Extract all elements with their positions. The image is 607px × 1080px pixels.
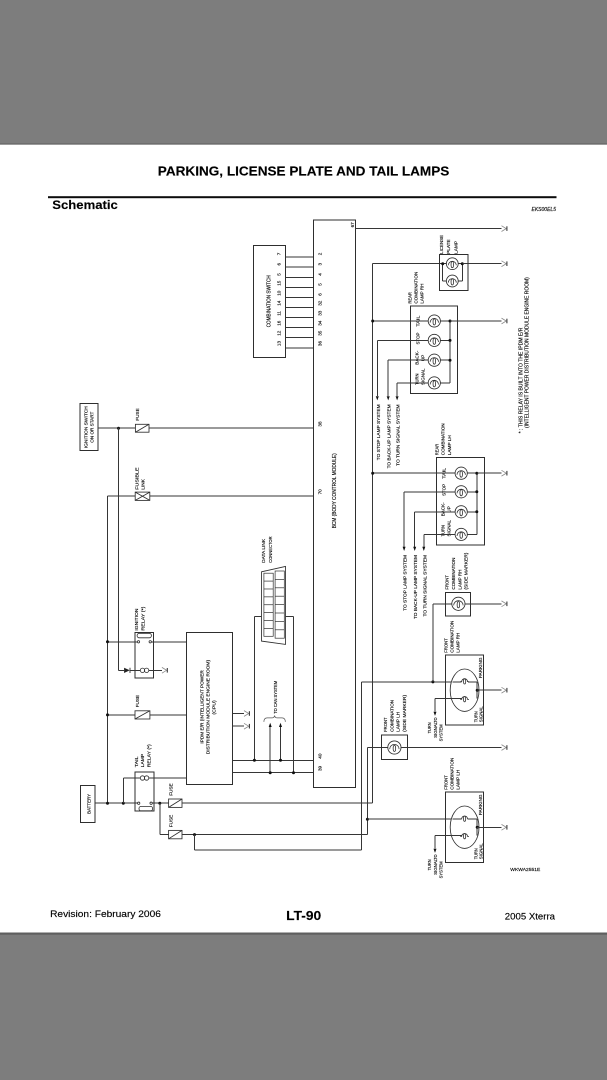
svg-text:RELAY (*): RELAY (*) bbox=[140, 606, 145, 631]
wire rear LH lamp common bus bbox=[467, 473, 477, 534]
wire rear RH stop feed bbox=[377, 340, 428, 396]
wire trunk B to front combination lamp LH bbox=[367, 818, 461, 820]
battery bbox=[81, 785, 96, 822]
wire fusible link to BCM pin 70 bbox=[150, 495, 313, 497]
pin label 12 (combination switch) bbox=[277, 330, 282, 336]
arrow to CAN system (left, from CAN-L) bbox=[269, 723, 272, 773]
pin label 13 (combination switch) bbox=[277, 341, 282, 347]
wire combination switch pin 12 to BCM pin 35 bbox=[286, 337, 314, 339]
wire combination switch pin 14 to BCM pin 32 bbox=[286, 307, 314, 309]
wire DLC bracket left to CAN-H bbox=[254, 617, 261, 761]
svg-text:RELAY (*): RELAY (*) bbox=[146, 744, 151, 768]
node: front LH parking output junction bbox=[476, 826, 479, 829]
lamp rear RH tail bbox=[428, 315, 440, 327]
front combination lamp RH bbox=[444, 621, 484, 725]
tail lamp relay (*) bbox=[134, 744, 154, 811]
svg-text:WKWA2551E: WKWA2551E bbox=[510, 867, 540, 872]
pin label 5 (BCM) bbox=[317, 283, 322, 286]
combination switch bbox=[253, 245, 285, 357]
wire trunk to fuse (IPDM feed) bbox=[108, 714, 136, 716]
node: rear LH bus junction tail bbox=[475, 472, 478, 475]
wire rear RH lamp common bus bbox=[440, 321, 450, 383]
svg-text:DISTRIBUTION MODULE ENGINE ROO: DISTRIBUTION MODULE ENGINE ROOM) bbox=[205, 659, 210, 754]
svg-text:LAMP LH: LAMP LH bbox=[396, 712, 401, 732]
front combination lamp LH bbox=[444, 758, 484, 863]
wire combination switch pin 10 to BCM pin 6 bbox=[286, 297, 314, 299]
arrow to turn signal system (front LH) bbox=[434, 849, 437, 853]
pin label 34 (BCM) bbox=[317, 320, 322, 326]
pin label 6 (combination switch) bbox=[277, 263, 282, 266]
wire front LH parking to ground arrow bbox=[477, 826, 501, 828]
svg-text:FUSE: FUSE bbox=[169, 783, 174, 796]
svg-text:TAIL: TAIL bbox=[134, 756, 139, 768]
node: rear RH bus junction stop bbox=[449, 339, 452, 342]
pin label 7 (combination switch) bbox=[277, 252, 282, 255]
node: DLC to CAN-H junction bbox=[253, 759, 256, 762]
svg-text:5: 5 bbox=[317, 283, 322, 286]
svg-text:4: 4 bbox=[317, 273, 322, 276]
svg-text:TURN: TURN bbox=[427, 722, 432, 733]
wire IPDM to BCM pin 40 (CAN-H) bbox=[233, 759, 314, 761]
svg-text:PARKING: PARKING bbox=[478, 794, 483, 815]
label to turn signal system (front RH) bbox=[427, 717, 443, 741]
arrow to back-up lamp system (upper) bbox=[387, 396, 390, 400]
footer page number LT-90 bbox=[286, 908, 321, 923]
arrow to turn signal system (upper) bbox=[396, 396, 399, 400]
svg-text:LINK: LINK bbox=[141, 478, 146, 490]
svg-text:SIGNAL: SIGNAL bbox=[479, 706, 484, 722]
wire side marker RH to ground arrow bbox=[465, 603, 502, 605]
arrow to stop lamp system (lower) bbox=[403, 547, 406, 551]
svg-text:LAMP RH: LAMP RH bbox=[420, 284, 425, 304]
svg-text:IGNITION SWITCH: IGNITION SWITCH bbox=[83, 406, 88, 448]
svg-text:BACK-: BACK- bbox=[415, 350, 420, 364]
node: trunk B / front combination lamp LH junction bbox=[366, 818, 369, 821]
svg-text:LAMP LH: LAMP LH bbox=[456, 770, 461, 790]
wire tail lamp relay coil to IPDM E/R bbox=[149, 777, 187, 779]
wire trunk B (parking lamp riser LH) bbox=[366, 748, 368, 835]
node: license lamp right junction bbox=[461, 262, 464, 265]
wire trunk A (tail lamp supply riser) bbox=[372, 264, 374, 804]
svg-text:32: 32 bbox=[317, 300, 322, 306]
wire combination switch pin 6 to BCM pin 3 bbox=[286, 266, 314, 268]
svg-text:COMBINATION SWITCH: COMBINATION SWITCH bbox=[266, 275, 272, 327]
pin label 35 (BCM) bbox=[317, 330, 322, 336]
pin label 33 (BCM) bbox=[317, 310, 322, 316]
ground arrow (license plate lamp) bbox=[502, 261, 507, 267]
ground arrow (front combination lamp LH) bbox=[502, 824, 507, 830]
footer model 2005 Xterra bbox=[505, 911, 555, 921]
svg-text:39: 39 bbox=[317, 765, 322, 771]
label to turn signal system (lower) bbox=[422, 555, 427, 617]
lamp rear LH stop bbox=[455, 486, 467, 498]
svg-text:FRONT: FRONT bbox=[383, 717, 388, 732]
license plate lamp bbox=[439, 235, 468, 291]
continuation chevron (CAN stub 1) bbox=[244, 711, 249, 717]
wire fuse 2 branch down to front lamp trunk C bbox=[195, 835, 362, 851]
wire junction up to front side marker RH bbox=[433, 604, 452, 682]
svg-text:IPDM E/R (INTELLIGENT POWER: IPDM E/R (INTELLIGENT POWER bbox=[199, 670, 204, 744]
svg-text:(SIDE MARKER): (SIDE MARKER) bbox=[464, 552, 469, 589]
wire rear RH turn signal feed bbox=[397, 383, 428, 396]
node: front RH parking output junction bbox=[476, 689, 479, 692]
svg-text:16: 16 bbox=[277, 320, 282, 326]
ground arrow (front side marker LH) bbox=[502, 745, 507, 751]
wire trunk B to front side marker LH bbox=[367, 747, 388, 749]
wire IPDM CAN stub 2 bbox=[233, 725, 244, 727]
svg-text:TO CAN SYSTEM: TO CAN SYSTEM bbox=[273, 681, 278, 714]
svg-text:BACK-: BACK- bbox=[441, 502, 446, 516]
lamp rear LH turn signal bbox=[455, 528, 467, 540]
diode (ignition relay coil suppression) bbox=[124, 668, 140, 673]
svg-text:COMBINATION: COMBINATION bbox=[450, 758, 455, 790]
pin label 67 (BCM) bbox=[350, 222, 355, 228]
arrow to CAN system (right, from CAN-H) bbox=[279, 723, 282, 761]
node: license lamp left junction bbox=[441, 262, 444, 265]
wire trunk to ignition relay contact bbox=[108, 641, 138, 643]
pin label 16 (combination switch) bbox=[277, 320, 282, 326]
node: CAN-L arrow junction bbox=[269, 771, 272, 774]
node: trunk A / rear LH tail junction bbox=[371, 472, 374, 475]
arrow to turn signal system (front RH) bbox=[434, 712, 437, 716]
wire license plate lamp to ground arrow bbox=[462, 263, 501, 265]
label to back-up lamp system (lower) bbox=[413, 555, 418, 619]
ground arrow (front combination lamp RH) bbox=[502, 687, 507, 693]
svg-text:(SIDE MARKER): (SIDE MARKER) bbox=[402, 694, 407, 731]
lamp rear LH tail bbox=[455, 467, 467, 479]
label to turn signal system (upper) bbox=[396, 404, 401, 466]
page title bbox=[158, 164, 450, 179]
pin label 36 (BCM) bbox=[317, 341, 322, 347]
wire rear LH turn signal feed bbox=[424, 534, 455, 546]
front combination lamp RH (side marker) bbox=[445, 552, 471, 616]
svg-text:TO BACK-UP LAMP SYSTEM: TO BACK-UP LAMP SYSTEM bbox=[413, 555, 418, 619]
svg-text:REAR: REAR bbox=[408, 292, 413, 304]
ground arrow (rear combination lamp RH) bbox=[502, 318, 507, 324]
wire rear RH lamp to ground arrow bbox=[450, 320, 502, 322]
svg-text:FUSE: FUSE bbox=[169, 815, 174, 828]
wire ignition junction down to ignition relay coil bbox=[119, 428, 125, 670]
wire trunk C to front combination lamp RH bbox=[362, 681, 462, 683]
svg-text:(CPU): (CPU) bbox=[211, 700, 216, 715]
svg-text:COMBINATION: COMBINATION bbox=[450, 621, 455, 653]
ignition relay (*) bbox=[134, 606, 154, 678]
svg-text:FRONT: FRONT bbox=[445, 575, 450, 590]
svg-text:FUSIBLE: FUSIBLE bbox=[134, 467, 139, 489]
svg-text:(INTELLIGENT POWER DISTRIBUTIO: (INTELLIGENT POWER DISTRIBUTION MODULE E… bbox=[524, 277, 530, 428]
fuse (IPDM feed) bbox=[135, 695, 150, 719]
svg-text:LAMP: LAMP bbox=[453, 241, 458, 254]
svg-text:FUSE: FUSE bbox=[135, 408, 140, 421]
fusible link bbox=[134, 467, 149, 500]
arrow to turn signal system (lower) bbox=[422, 547, 425, 551]
ground arrow (rear combination lamp LH) bbox=[502, 470, 507, 476]
svg-text:6: 6 bbox=[317, 293, 322, 296]
svg-text:TURN: TURN bbox=[427, 859, 432, 870]
svg-text:6: 6 bbox=[277, 263, 282, 266]
label to back-up lamp system (upper) bbox=[387, 404, 392, 468]
svg-text:BCM (BODY CONTROL MODULE): BCM (BODY CONTROL MODULE) bbox=[332, 453, 338, 528]
lamp rear RH back-up bbox=[428, 354, 440, 366]
svg-text:15: 15 bbox=[277, 280, 282, 286]
wire trunk A to rear LH tail lamp bbox=[373, 472, 455, 474]
svg-text:FUSE: FUSE bbox=[135, 695, 140, 708]
pin label 10 (combination switch) bbox=[277, 290, 282, 296]
wire side marker LH to ground arrow bbox=[401, 747, 502, 749]
wire fuse to IPDM E/R bbox=[150, 714, 187, 716]
svg-text:11: 11 bbox=[277, 311, 282, 316]
pin label 11 (combination switch) bbox=[277, 311, 282, 316]
svg-text:COMBINATION: COMBINATION bbox=[390, 700, 395, 732]
fuse (parking lamp circuit) bbox=[169, 815, 182, 839]
wire IPDM CAN stub 1 bbox=[233, 713, 244, 715]
svg-text:38: 38 bbox=[317, 421, 322, 427]
pin label 5 (combination switch) bbox=[277, 273, 282, 276]
pin label 38 (BCM) bbox=[317, 421, 322, 427]
wire front RH parking to ground arrow bbox=[477, 689, 501, 691]
svg-text:5: 5 bbox=[277, 273, 282, 276]
svg-text:33: 33 bbox=[317, 310, 322, 316]
wire trunk A to license plate lamp bbox=[373, 263, 443, 265]
node: trunk / ignition relay junction bbox=[106, 640, 109, 643]
wire fuse 2 to front lamp trunk B bbox=[182, 834, 367, 836]
node: rear LH bus junction stop bbox=[475, 490, 478, 493]
svg-text:34: 34 bbox=[317, 320, 322, 326]
arrow to back-up lamp system (lower) bbox=[413, 547, 416, 551]
svg-text:40: 40 bbox=[317, 753, 322, 759]
pin label 40 (BCM) bbox=[317, 753, 322, 759]
wire fuse to BCM pin 38 bbox=[149, 427, 313, 429]
svg-text:LAMP RH: LAMP RH bbox=[456, 633, 461, 653]
label TO CAN SYSTEM bbox=[273, 681, 278, 714]
wire combination switch pin 15 to BCM pin 5 bbox=[286, 287, 314, 289]
wire ignition relay contact to IPDM E/R bbox=[151, 641, 186, 643]
arrow to stop lamp system (upper) bbox=[376, 396, 379, 400]
wire trunk C (parking lamp riser RH) bbox=[361, 682, 363, 850]
ignition switch bbox=[80, 404, 98, 451]
wire combination switch pin 7 to BCM pin 2 bbox=[286, 256, 314, 258]
svg-text:14: 14 bbox=[277, 300, 282, 306]
node: relay output junction bbox=[158, 802, 161, 805]
svg-text:COMBINATION: COMBINATION bbox=[414, 272, 419, 304]
svg-text:35: 35 bbox=[317, 330, 322, 336]
wire battery to tail lamp relay bbox=[95, 802, 137, 804]
svg-text:SIGNAL: SIGNAL bbox=[433, 859, 438, 875]
ground arrow (front side marker RH) bbox=[502, 601, 507, 607]
fuse (tail lamp circuit) bbox=[169, 783, 182, 807]
svg-text:TO STOP LAMP SYSTEM: TO STOP LAMP SYSTEM bbox=[403, 555, 408, 611]
wire BCM pin 67 to ground arrow bbox=[355, 228, 501, 230]
node: battery / relay coil junction bbox=[122, 802, 125, 805]
svg-text:LAMP RH: LAMP RH bbox=[458, 570, 463, 590]
ground chevron (ignition relay coil) bbox=[162, 667, 167, 673]
svg-text:COMBINATION: COMBINATION bbox=[441, 423, 446, 455]
svg-text:BATTERY: BATTERY bbox=[87, 793, 93, 814]
lamp rear RH turn signal bbox=[428, 377, 440, 389]
wire rear LH back-up feed bbox=[415, 512, 455, 547]
svg-text:CONNECTOR: CONNECTOR bbox=[268, 536, 273, 563]
node: trunk / IPDM fuse junction bbox=[106, 713, 109, 716]
svg-text:Schematic: Schematic bbox=[52, 198, 118, 212]
wire relay output down to fuse 2 bbox=[160, 803, 169, 834]
pin label 4 (BCM) bbox=[317, 273, 322, 276]
note: relay built into IPDM E/R bbox=[518, 277, 530, 434]
node: trunk A / rear RH tail junction bbox=[371, 320, 374, 323]
pin label 3 (BCM) bbox=[317, 263, 322, 266]
node: front RH parking / side marker junction bbox=[431, 680, 434, 683]
svg-text:PARKING: PARKING bbox=[478, 657, 483, 678]
wire battery trunk up to fusible link bbox=[108, 496, 136, 803]
svg-text:COMBINATION: COMBINATION bbox=[451, 558, 456, 590]
pin label 32 (BCM) bbox=[317, 300, 322, 306]
pin label 15 (combination switch) bbox=[277, 280, 282, 286]
svg-text:10: 10 bbox=[277, 290, 282, 296]
svg-text:Revision: February 2006: Revision: February 2006 bbox=[50, 909, 161, 919]
svg-text:LT-90: LT-90 bbox=[286, 908, 321, 923]
svg-text:SYSTEM: SYSTEM bbox=[439, 724, 444, 741]
svg-text:TO STOP LAMP SYSTEM: TO STOP LAMP SYSTEM bbox=[376, 404, 381, 460]
label to stop lamp system (upper) bbox=[376, 404, 381, 460]
svg-text:PARKING, LICENSE PLATE AND TAI: PARKING, LICENSE PLATE AND TAIL LAMPS bbox=[158, 164, 450, 179]
footer revision bbox=[50, 909, 161, 919]
svg-text:EKS00EL5: EKS00EL5 bbox=[532, 207, 557, 213]
svg-text:2: 2 bbox=[317, 252, 322, 255]
wire DLC bracket right to CAN-L bbox=[286, 617, 294, 773]
svg-text:STOP: STOP bbox=[441, 484, 446, 496]
svg-text:TO BACK-UP LAMP SYSTEM: TO BACK-UP LAMP SYSTEM bbox=[387, 404, 392, 468]
lamp rear LH back-up bbox=[455, 506, 467, 518]
pin label 2 (BCM) bbox=[317, 252, 322, 255]
wire fuse 1 to tail lamp trunk bbox=[182, 802, 373, 804]
svg-text:REAR: REAR bbox=[434, 443, 439, 455]
svg-text:3: 3 bbox=[317, 263, 322, 266]
node: CAN-H arrow junction bbox=[279, 759, 282, 762]
svg-text:TO TURN SIGNAL SYSTEM: TO TURN SIGNAL SYSTEM bbox=[396, 404, 401, 466]
wire trunk A to rear RH tail lamp bbox=[373, 320, 429, 322]
node: rear RH bus junction back-up bbox=[449, 359, 452, 362]
wire combination switch pin 11 to BCM pin 33 bbox=[286, 317, 314, 319]
svg-text:7: 7 bbox=[277, 252, 282, 255]
svg-text:ON OR START: ON OR START bbox=[90, 412, 95, 443]
node: rear LH bus junction back-up bbox=[475, 510, 478, 513]
svg-text:IGNITION: IGNITION bbox=[134, 609, 139, 631]
svg-text:FRONT: FRONT bbox=[444, 638, 449, 653]
svg-text:LICENSE: LICENSE bbox=[439, 235, 444, 254]
svg-text:SIGNAL: SIGNAL bbox=[433, 722, 438, 738]
wire IPDM to BCM pin 39 (CAN-L) bbox=[233, 772, 314, 774]
node: DLC to CAN-L junction bbox=[292, 771, 295, 774]
title rule bbox=[48, 196, 557, 198]
ground arrow (pin 67 circuit) bbox=[502, 226, 507, 232]
section heading Schematic bbox=[52, 198, 118, 212]
drawing number WKWA2551E bbox=[510, 867, 540, 872]
IPDM E/R (intelligent power distribution module engine room) (CPU) bbox=[187, 633, 233, 785]
label to stop lamp system (lower) bbox=[403, 555, 408, 611]
svg-text:LAMP LH: LAMP LH bbox=[447, 435, 452, 455]
node: fuse 2 output junction bbox=[193, 833, 196, 836]
svg-text:STOP: STOP bbox=[415, 333, 420, 345]
BCM (body control module) bbox=[313, 220, 355, 788]
svg-text:12: 12 bbox=[277, 330, 282, 336]
wire ignition switch to fuse bbox=[98, 427, 135, 429]
wire tail lamp relay coil feed (from battery junction) bbox=[123, 778, 140, 803]
wire front LH turn signal out bbox=[435, 835, 453, 848]
pin label 70 (BCM) bbox=[317, 489, 322, 495]
wire tail lamp relay contact to fuse 1 bbox=[152, 802, 168, 804]
data link connector bbox=[261, 536, 285, 645]
svg-text:70: 70 bbox=[317, 489, 322, 495]
lamp rear RH stop bbox=[428, 334, 440, 346]
wire rear LH stop feed bbox=[404, 492, 455, 547]
pin label 6 (BCM) bbox=[317, 293, 322, 296]
pin label 14 (combination switch) bbox=[277, 300, 282, 306]
svg-text:67: 67 bbox=[350, 222, 355, 228]
svg-text:13: 13 bbox=[277, 341, 282, 347]
svg-text:SYSTEM: SYSTEM bbox=[439, 861, 444, 878]
continuation chevron (CAN stub 2) bbox=[244, 723, 249, 729]
doc code EKS00EL5 bbox=[532, 207, 557, 213]
wire combination switch pin 16 to BCM pin 34 bbox=[286, 327, 314, 329]
wire rear RH back-up feed bbox=[388, 360, 428, 396]
svg-text:TO TURN SIGNAL SYSTEM: TO TURN SIGNAL SYSTEM bbox=[422, 555, 427, 617]
label to turn signal system (front LH) bbox=[427, 854, 443, 878]
rear combination lamp RH bbox=[408, 272, 458, 394]
svg-text:SIGNAL: SIGNAL bbox=[479, 843, 484, 859]
svg-text:FRONT: FRONT bbox=[444, 775, 449, 790]
svg-text:36: 36 bbox=[317, 341, 322, 347]
node: rear RH bus junction tail bbox=[449, 320, 452, 323]
fuse (BCM pin 38 feed) bbox=[135, 408, 149, 432]
wire ignition relay coil to ground chevron bbox=[149, 669, 162, 671]
pin label 39 (BCM) bbox=[317, 765, 322, 771]
svg-text:DATA LINK: DATA LINK bbox=[261, 538, 266, 563]
front combination lamp LH (side marker) bbox=[382, 694, 408, 759]
svg-text:2005 Xterra: 2005 Xterra bbox=[505, 911, 555, 921]
svg-text:LAMP: LAMP bbox=[140, 754, 145, 768]
wire rear LH lamp to ground arrow bbox=[477, 472, 502, 474]
node: battery / trunk junction bbox=[106, 802, 109, 805]
node: ignition feed junction bbox=[117, 427, 120, 430]
brace (to CAN system) bbox=[264, 716, 285, 722]
rear combination lamp LH bbox=[434, 423, 484, 545]
wire combination switch pin 5 to BCM pin 4 bbox=[286, 277, 314, 279]
svg-text:PLATE: PLATE bbox=[446, 239, 451, 254]
wire front RH turn signal out bbox=[435, 698, 453, 711]
wire combination switch pin 13 to BCM pin 36 bbox=[286, 347, 314, 349]
